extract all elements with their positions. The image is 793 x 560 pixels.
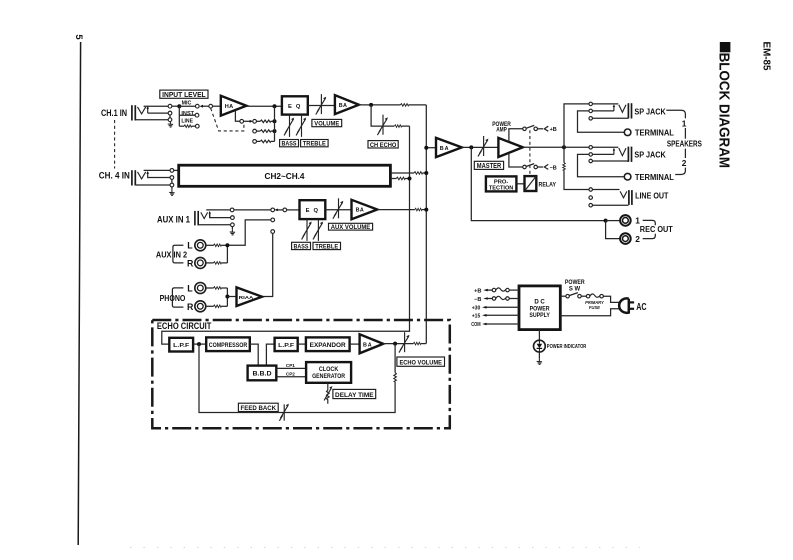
svg-text:+B: +B bbox=[550, 127, 557, 133]
op-amp HA bbox=[221, 96, 247, 116]
svg-text:−B: −B bbox=[474, 297, 481, 303]
label CH ECHO bbox=[368, 141, 398, 149]
potentiometer TREBLE (AUX, under EQ) bbox=[313, 219, 323, 241]
svg-text:SPEAKERS: SPEAKERS bbox=[667, 138, 702, 148]
svg-text:5: 5 bbox=[74, 34, 85, 39]
block L.P.F 1 bbox=[169, 338, 193, 352]
RCA jack PHONO L bbox=[195, 283, 206, 294]
wire expandor to BA bbox=[350, 343, 360, 345]
svg-text:INST.: INST. bbox=[181, 111, 195, 117]
wire SP2 tip bbox=[592, 146, 618, 148]
node HA out bbox=[273, 104, 277, 108]
wire BA2 out to power amp bbox=[462, 146, 499, 148]
wire RIAA feed up bbox=[262, 233, 273, 296]
svg-text:FUSE: FUSE bbox=[589, 305, 601, 311]
svg-text:DELAY TIME: DELAY TIME bbox=[335, 392, 374, 399]
svg-text:CP2: CP2 bbox=[286, 372, 295, 378]
svg-text:SP JACK: SP JACK bbox=[634, 106, 666, 116]
svg-text:S W: S W bbox=[569, 287, 581, 293]
svg-text:PRIMARY: PRIMARY bbox=[585, 300, 604, 306]
gain wiper arrow (points right) bbox=[243, 120, 249, 122]
terminal 2 bbox=[624, 173, 631, 180]
svg-text:AC: AC bbox=[636, 302, 647, 313]
svg-text:1: 1 bbox=[682, 119, 687, 129]
dashed relay actuation line bbox=[529, 130, 531, 176]
svg-text:BASS: BASS bbox=[294, 243, 310, 250]
wire EQ to BA bbox=[308, 105, 335, 107]
label AUX VOLUME bbox=[329, 223, 373, 231]
wire SP1 ring to plug arrow bbox=[592, 110, 614, 112]
wire to SP1 bbox=[564, 104, 589, 147]
svg-text:AUX IN 1: AUX IN 1 bbox=[157, 215, 190, 225]
resistor echo out bbox=[413, 342, 420, 345]
svg-text:L.P.F: L.P.F bbox=[278, 343, 294, 349]
wire AUX2 feed up bbox=[229, 220, 271, 245]
selector wiper arrow (points left to MIC) bbox=[202, 105, 209, 107]
svg-text:RELAY: RELAY bbox=[539, 182, 557, 189]
amp RIAA bbox=[237, 287, 263, 306]
svg-text:+30: +30 bbox=[472, 306, 481, 312]
svg-text:CH2~CH.4: CH2~CH.4 bbox=[265, 172, 306, 181]
wire line out tip bbox=[592, 189, 619, 191]
wire AUX2 junction bbox=[226, 245, 228, 263]
svg-text:LINE OUT: LINE OUT bbox=[635, 190, 669, 200]
label TREBLE (AUX) bbox=[313, 242, 341, 250]
svg-text:B.B.D: B.B.D bbox=[253, 371, 272, 378]
switch POWER SW bbox=[566, 294, 570, 298]
wire INST stub bbox=[179, 114, 195, 116]
svg-text:INPUT LEVEL: INPUT LEVEL bbox=[162, 92, 206, 99]
wire SP1 sleeve bbox=[592, 117, 628, 119]
EQ box AUX bbox=[300, 200, 326, 219]
svg-text:HA: HA bbox=[225, 104, 234, 110]
switch -B bbox=[523, 165, 527, 169]
block B.B.D bbox=[248, 366, 277, 381]
wire feedback leg bbox=[394, 344, 396, 373]
svg-text:CH.1 IN: CH.1 IN bbox=[101, 108, 127, 118]
svg-text:AUX VOLUME: AUX VOLUME bbox=[331, 225, 371, 231]
block DC POWER SUPPLY bbox=[519, 286, 560, 330]
svg-text:+15: +15 bbox=[472, 314, 481, 320]
trimmer DELAY TIME bbox=[324, 383, 332, 404]
svg-text:CLOCK: CLOCK bbox=[319, 366, 339, 373]
wire compressor to BBD bbox=[250, 344, 258, 366]
svg-text:LINE: LINE bbox=[181, 118, 193, 124]
wire rec out feed bbox=[471, 147, 605, 220]
wire EQ to BA (AUX) bbox=[325, 209, 351, 211]
svg-text:CP1: CP1 bbox=[286, 363, 295, 369]
wire ring-sleeve link bbox=[169, 115, 171, 118]
contact AUX2 feed bbox=[271, 218, 275, 222]
resistor line out feed (vertical) bbox=[563, 147, 565, 162]
svg-text:L: L bbox=[187, 241, 193, 251]
dashed gang link selector to HA gain switch bbox=[211, 108, 244, 131]
bracket rec out bbox=[643, 220, 656, 238]
contacts SP JACK 1 bbox=[589, 102, 593, 106]
wire tip to selector node bbox=[172, 105, 180, 107]
switch +B bbox=[523, 127, 527, 131]
wire to RIAA bbox=[227, 296, 236, 298]
resistor AUX2 R bbox=[206, 262, 214, 264]
svg-text:ECHO VOLUME: ECHO VOLUME bbox=[399, 360, 442, 367]
svg-text:REC OUT: REC OUT bbox=[640, 225, 673, 234]
label MASTER bbox=[474, 161, 503, 170]
wire AUX1 sleeve bbox=[198, 224, 231, 226]
svg-text:POWER: POWER bbox=[565, 280, 585, 286]
bracket PHONO bbox=[172, 288, 183, 307]
svg-text:GENERATOR: GENERATOR bbox=[312, 373, 345, 380]
svg-text:FEED BACK: FEED BACK bbox=[241, 405, 277, 412]
svg-text:TREBLE: TREBLE bbox=[315, 243, 339, 250]
svg-text:AUX IN 2: AUX IN 2 bbox=[156, 249, 187, 259]
wire +B rail bbox=[509, 129, 523, 142]
label ECHO VOLUME bbox=[397, 357, 445, 367]
svg-text:TERMINAL: TERMINAL bbox=[635, 128, 674, 138]
svg-text:BA: BA bbox=[339, 103, 348, 109]
ground power indicator bbox=[538, 352, 540, 359]
label INPUT LEVEL bbox=[160, 90, 208, 99]
wire -B rail bbox=[509, 153, 523, 167]
buffer amp BA (AUX) bbox=[352, 200, 378, 220]
label DELAY TIME bbox=[333, 389, 376, 399]
contacts LINE OUT bbox=[589, 188, 593, 192]
wire CH4 sleeve bbox=[135, 184, 170, 186]
svg-text:MASTER: MASTER bbox=[477, 161, 502, 170]
wire jack tip bbox=[144, 105, 169, 107]
jack LINE OUT bbox=[620, 190, 632, 205]
potentiometer BASS (under EQ) bbox=[284, 115, 294, 137]
potentiometer FEED BACK bbox=[279, 404, 289, 421]
RCA jack REC OUT 1 bbox=[620, 215, 631, 226]
wire CP1 bbox=[276, 367, 306, 369]
svg-text:E Q: E Q bbox=[306, 208, 320, 214]
svg-text:ECHO CIRCUIT: ECHO CIRCUIT bbox=[157, 321, 212, 331]
terminal 1 bbox=[624, 129, 631, 136]
jack CH1 IN (phone jack) bbox=[132, 105, 149, 120]
svg-text:BA: BA bbox=[440, 146, 450, 152]
wire CP2 bbox=[276, 376, 306, 378]
svg-text:CH. 4 IN: CH. 4 IN bbox=[99, 171, 130, 181]
EQ box CH1 bbox=[282, 96, 308, 114]
svg-text:POWER INDICATOR: POWER INDICATOR bbox=[547, 344, 587, 350]
wire gain feedback vertical bbox=[274, 106, 276, 141]
svg-text:CH ECHO: CH ECHO bbox=[370, 142, 397, 149]
svg-text:TERMINAL: TERMINAL bbox=[635, 172, 674, 182]
node CH1 out bbox=[369, 103, 373, 107]
wire AUX1 tip to selector contact bbox=[234, 209, 271, 211]
wire lpf1 to compressor bbox=[193, 343, 206, 345]
wire SP2 sleeve bbox=[592, 160, 628, 162]
wire MIC stub bbox=[179, 105, 195, 107]
power amp triangle bbox=[498, 138, 522, 157]
wire BBD to LPF2 bbox=[266, 344, 274, 366]
wire echo bus bbox=[162, 126, 410, 344]
wire main bus bbox=[425, 105, 427, 344]
jack AUX IN 1 bbox=[195, 211, 211, 226]
wire jack ring bbox=[148, 112, 169, 114]
RCA jack AUX2 R bbox=[195, 257, 206, 268]
resistor AUX2 L bbox=[206, 244, 214, 246]
wire fuse to AC plug (top) bbox=[603, 296, 620, 302]
wire AUX out to main bus bbox=[377, 209, 415, 211]
svg-text:PRO-: PRO- bbox=[494, 179, 509, 185]
svg-text:BLOCK DIAGRAM: BLOCK DIAGRAM bbox=[716, 53, 732, 169]
wire line out sleeve bbox=[592, 204, 628, 206]
svg-text:−B: −B bbox=[550, 165, 557, 171]
potentiometer ECHO VOLUME bbox=[399, 332, 410, 352]
svg-text:RIAA: RIAA bbox=[239, 295, 254, 301]
resistor gain row3 bbox=[253, 140, 257, 144]
wire BA out to echo volume bbox=[383, 343, 413, 345]
wire jack sleeve bbox=[135, 119, 168, 121]
wire HA output bbox=[246, 105, 282, 107]
svg-text:2: 2 bbox=[682, 158, 687, 168]
svg-text:L: L bbox=[187, 283, 193, 293]
dashed gang line CH1-CH4 bbox=[114, 120, 116, 169]
node CH1 selector bbox=[177, 104, 181, 108]
wire LINE stub with resistor bbox=[179, 125, 184, 127]
wire terminal 2 feed bbox=[578, 154, 625, 176]
wire box to AC plug (bottom) bbox=[560, 309, 619, 316]
ground AUX1 jack bbox=[231, 227, 233, 230]
wire wiper to AUX EQ bbox=[287, 209, 300, 211]
LED power indicator bbox=[538, 330, 540, 341]
svg-text:E Q: E Q bbox=[288, 104, 302, 110]
svg-text:2: 2 bbox=[635, 234, 640, 244]
svg-text:TECTION: TECTION bbox=[489, 186, 514, 192]
wire AUX1 ring bbox=[210, 214, 231, 218]
wire HA gain leg bbox=[235, 110, 240, 121]
wire CH1 echo leg bbox=[371, 105, 394, 126]
jack CH4 IN bbox=[132, 170, 149, 185]
page binding edge line bbox=[78, 42, 80, 545]
wire protection to relay bbox=[516, 183, 524, 185]
label BASS bbox=[280, 140, 299, 148]
wire SP1 tip bbox=[592, 103, 618, 105]
svg-text:AMP: AMP bbox=[496, 127, 507, 133]
wire to SP2 bbox=[564, 146, 589, 148]
wire bus to BA2 bbox=[426, 147, 436, 149]
wire BA1 out to main bus bbox=[359, 104, 401, 106]
jack SP JACK 1 bbox=[613, 103, 632, 118]
svg-text:BA: BA bbox=[356, 208, 365, 214]
block EXPANDOR bbox=[306, 337, 350, 351]
svg-text:+B: +B bbox=[474, 288, 481, 294]
wire SP2 ring bbox=[592, 153, 614, 155]
wire PHONO junction bbox=[226, 288, 228, 306]
wire CH4 ring bbox=[148, 177, 171, 179]
potentiometer AUX VOLUME bbox=[333, 198, 344, 218]
wire wiper to HA bbox=[212, 105, 220, 107]
svg-text:VOLUME: VOLUME bbox=[314, 120, 340, 127]
contact circles CH1 jack bbox=[168, 104, 172, 108]
potentiometer BASS (AUX, under EQ) bbox=[302, 219, 312, 241]
buffer amp BA (CH1) bbox=[335, 95, 359, 114]
svg-text:EM-85: EM-85 bbox=[760, 42, 771, 72]
svg-text:R: R bbox=[187, 258, 194, 268]
svg-text:R: R bbox=[187, 302, 194, 312]
svg-text:COM: COM bbox=[471, 322, 481, 328]
speakers bracket bbox=[666, 110, 685, 174]
wire CH2 main out with resistor bbox=[390, 172, 414, 174]
wire lpf2 to expandor bbox=[298, 343, 306, 345]
summing amp BA bbox=[436, 138, 462, 157]
resistor gain row2 bbox=[253, 129, 257, 133]
potentiometer MASTER bbox=[478, 136, 489, 156]
contact PHONO feed bbox=[271, 230, 275, 234]
faint bottom page edge dots bbox=[130, 547, 640, 549]
wire terminal 1 feed bbox=[578, 111, 625, 132]
relay box bbox=[525, 176, 537, 191]
wire power amp output bbox=[523, 146, 564, 148]
selector wiper arrow AUX (points left) bbox=[277, 209, 284, 211]
contacts SP JACK 2 bbox=[589, 146, 593, 150]
label VOLUME bbox=[312, 119, 342, 127]
svg-text:SUPPLY: SUPPLY bbox=[529, 313, 550, 319]
block PRO-TECTION bbox=[486, 176, 517, 191]
jack SP JACK 2 bbox=[613, 147, 632, 162]
resistor gain row1 bbox=[256, 120, 260, 122]
svg-text:SP JACK: SP JACK bbox=[634, 150, 666, 160]
wire CH2 echo out with resistor bbox=[390, 178, 396, 180]
potentiometer TREBLE (under EQ) bbox=[296, 115, 306, 137]
svg-text:BA: BA bbox=[363, 342, 373, 348]
AC plug bbox=[619, 298, 634, 312]
wire box to power switch bbox=[560, 295, 566, 297]
svg-text:TREBLE: TREBLE bbox=[303, 141, 327, 148]
echo buffer amp BA bbox=[360, 334, 384, 353]
block L.P.F 2 bbox=[275, 338, 298, 351]
svg-text:L.P.F: L.P.F bbox=[173, 343, 189, 349]
RCA jack PHONO R bbox=[195, 301, 206, 312]
svg-text:EXPANDOR: EXPANDOR bbox=[310, 342, 346, 349]
svg-text:COMPRESSOR: COMPRESSOR bbox=[209, 342, 248, 349]
ground CH1 jack bbox=[168, 121, 173, 127]
contact MIC bbox=[195, 104, 199, 108]
svg-text:POWER: POWER bbox=[530, 306, 551, 312]
wire AUX1 tip bbox=[206, 209, 230, 211]
bracket AUX IN 2 bbox=[173, 245, 184, 263]
wire CH4 tip bbox=[144, 169, 171, 171]
RCA jack AUX2 L bbox=[195, 240, 206, 251]
title square bullet bbox=[720, 42, 731, 52]
ground CH4 jack bbox=[171, 187, 173, 190]
RCA jack REC OUT 2 bbox=[620, 233, 631, 244]
label TREBLE bbox=[301, 140, 329, 148]
node feedback join bbox=[197, 342, 201, 346]
block CLOCK GENERATOR bbox=[306, 362, 351, 383]
resistor PHONO L bbox=[206, 287, 214, 289]
wire rec out 2 leg bbox=[606, 221, 620, 239]
label FEED BACK bbox=[238, 403, 278, 412]
block CH2~CH.4 bbox=[179, 165, 391, 186]
potentiometer VOLUME bbox=[316, 94, 327, 114]
svg-text:BASS: BASS bbox=[282, 141, 298, 148]
label BASS (AUX) bbox=[292, 242, 311, 250]
block COMPRESSOR bbox=[206, 337, 250, 351]
resistor PHONO R bbox=[206, 305, 214, 307]
wire selector vertical bbox=[178, 106, 180, 126]
echo circuit dash-dot border bbox=[152, 320, 450, 428]
fuse PRIMARY FUSE bbox=[586, 294, 590, 298]
svg-text:D C: D C bbox=[534, 300, 545, 306]
